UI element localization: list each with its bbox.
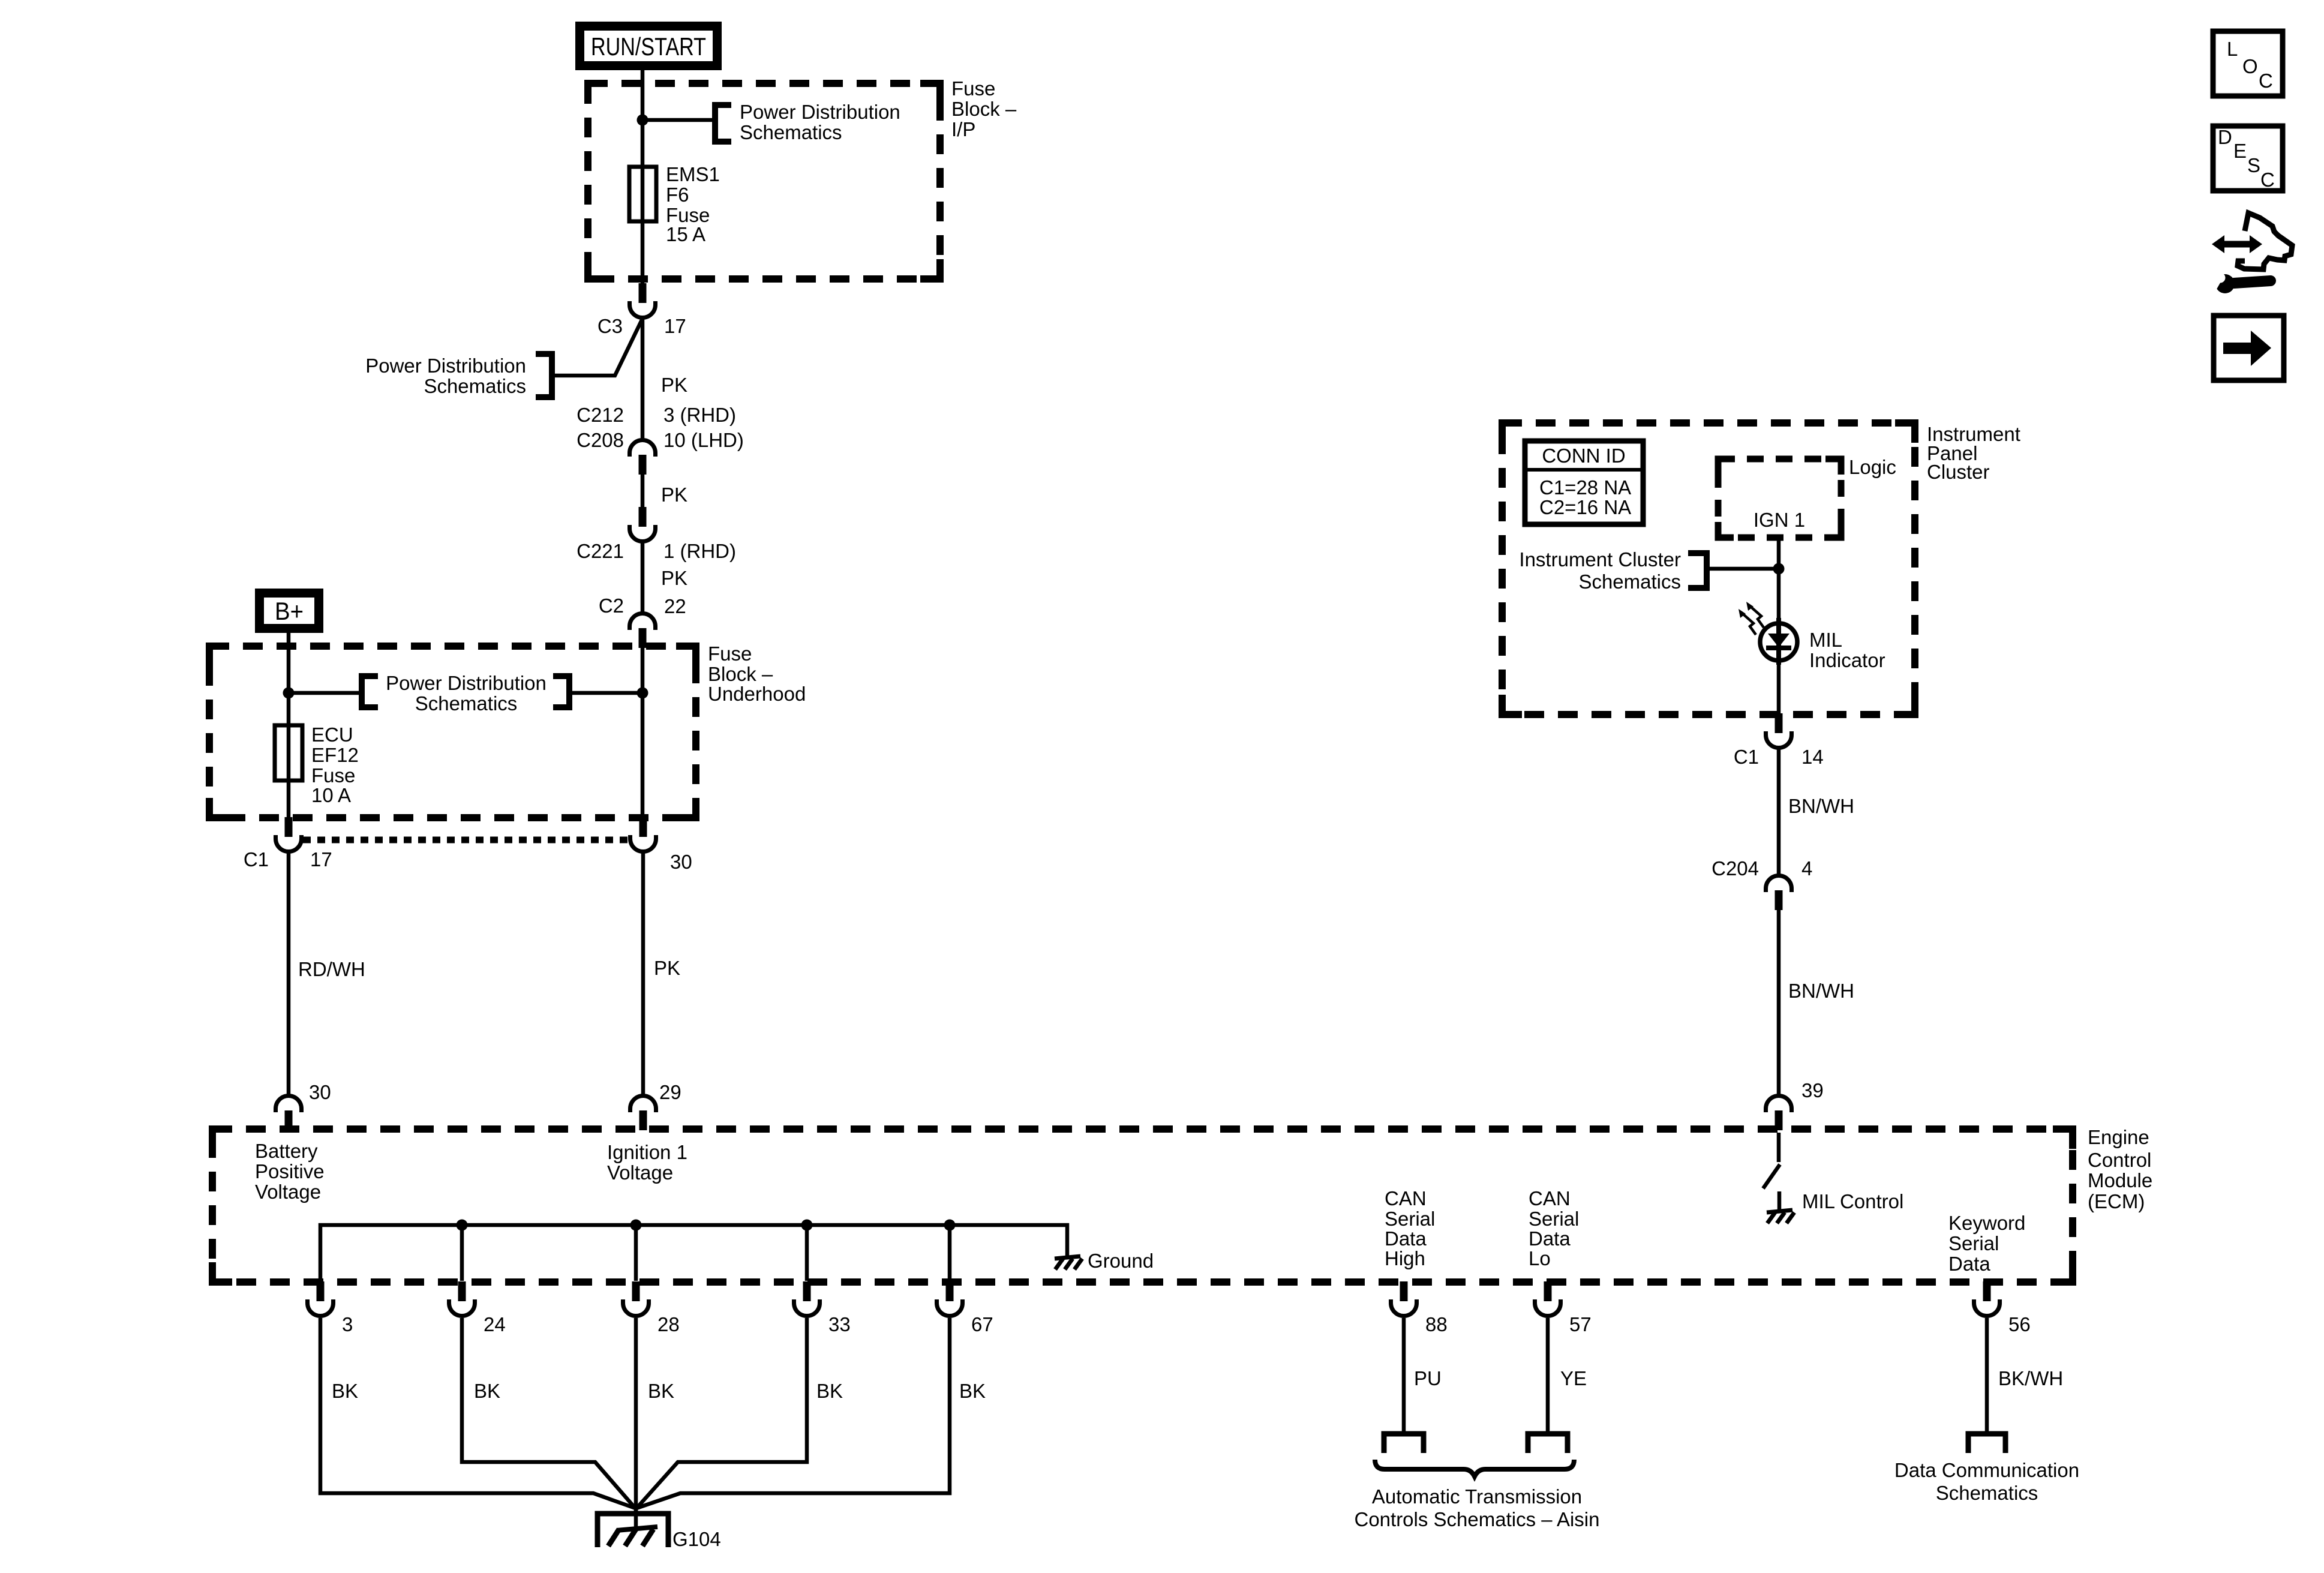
svg-text:CONN ID: CONN ID <box>1542 445 1625 467</box>
bracket Power Distribution Schematics (I/P) <box>715 105 731 142</box>
ground symbol (internal) <box>1055 1256 1082 1269</box>
svg-text:Instrument Cluster: Instrument Cluster <box>1519 548 1681 571</box>
svg-text:29: 29 <box>659 1081 681 1103</box>
connector C204 pin 4 <box>1766 876 1792 911</box>
fuse ECU EF12 10A <box>275 725 302 781</box>
svg-text:PU: PU <box>1414 1367 1442 1389</box>
table CONN ID <box>1525 441 1643 524</box>
svg-text:L: L <box>2227 38 2238 60</box>
svg-text:C1: C1 <box>1734 746 1759 768</box>
wire C2 to underhood bottom <box>641 648 645 818</box>
svg-text:Indicator: Indicator <box>1809 649 1885 671</box>
wire C212 to C221 <box>641 468 645 510</box>
svg-text:C212: C212 <box>577 404 624 426</box>
svg-text:Schematics: Schematics <box>1578 571 1681 593</box>
svg-text:57: 57 <box>1569 1313 1592 1335</box>
label Power Distribution Schematics (I/P) <box>740 101 900 143</box>
svg-text:YE: YE <box>1560 1367 1587 1389</box>
fuse EMS1 F6 15A <box>629 167 656 221</box>
label Data Communication Schematics <box>1894 1459 2079 1504</box>
terminal pin 88 <box>1384 1434 1424 1453</box>
svg-text:15 A: 15 A <box>666 223 705 245</box>
node junction on IGN1 wire <box>1773 563 1785 575</box>
wire BN/WH upper <box>1777 749 1781 874</box>
wire IGN1 to LED <box>1777 538 1781 624</box>
svg-text:1 (RHD): 1 (RHD) <box>663 540 736 562</box>
power feed box RUN/START <box>575 22 722 70</box>
wire YE <box>1546 1318 1550 1433</box>
label Instrument Panel Cluster <box>1927 423 2020 483</box>
wire RD/WH <box>287 852 291 1094</box>
connector pin 88 <box>1391 1281 1417 1316</box>
svg-text:Serial: Serial <box>1529 1208 1579 1230</box>
svg-text:Data: Data <box>1385 1227 1427 1250</box>
wire ground bus <box>320 1225 1067 1281</box>
svg-text:Underhood: Underhood <box>708 683 806 705</box>
svg-text:22: 22 <box>664 595 686 617</box>
svg-text:28: 28 <box>657 1313 680 1335</box>
svg-text:Controls Schematics – Aisin: Controls Schematics – Aisin <box>1354 1508 1599 1530</box>
svg-text:BK: BK <box>332 1380 358 1402</box>
svg-text:PK: PK <box>661 484 687 506</box>
svg-text:3: 3 <box>342 1313 353 1335</box>
wire B+ to fuse ECU <box>287 631 291 725</box>
node dot pin 24 <box>457 1220 468 1231</box>
connector C3 pin 17 <box>630 283 656 318</box>
svg-text:56: 56 <box>2008 1313 2031 1335</box>
label Battery Positive Voltage <box>255 1140 325 1203</box>
wire PK long <box>641 852 645 1094</box>
power feed box B+ <box>255 589 323 633</box>
wire junction to left bracket <box>289 691 362 695</box>
fuse block I/P dashed box <box>588 83 940 279</box>
svg-text:C1=28 NA: C1=28 NA <box>1539 476 1631 499</box>
svg-text:17: 17 <box>310 848 332 870</box>
svg-text:88: 88 <box>1425 1313 1448 1335</box>
ground G104 symbol <box>597 1506 668 1547</box>
wire junction to bracket <box>642 118 713 122</box>
svg-text:BK: BK <box>816 1380 843 1402</box>
svg-text:O: O <box>2242 55 2258 77</box>
label Ignition 1 Voltage <box>607 1141 687 1184</box>
svg-text:Data: Data <box>1529 1227 1571 1250</box>
wire pin 28 branch <box>634 1225 638 1281</box>
wire fuse to connector C3 <box>641 221 645 290</box>
svg-text:MIL: MIL <box>1809 629 1842 651</box>
wire BK pin 28 to G104 <box>634 1318 638 1513</box>
wire switch to ground stub <box>1777 1191 1782 1211</box>
svg-text:Lo: Lo <box>1529 1247 1551 1269</box>
svg-text:Block –: Block – <box>951 98 1017 120</box>
connector pin 56 <box>1974 1281 2000 1316</box>
svg-text:EF12: EF12 <box>311 744 359 766</box>
svg-text:67: 67 <box>971 1313 993 1335</box>
svg-text:RD/WH: RD/WH <box>298 958 365 980</box>
wire LED to cluster bottom <box>1777 661 1781 715</box>
svg-text:Schematics: Schematics <box>1936 1482 2038 1504</box>
svg-text:Fuse: Fuse <box>311 764 355 786</box>
svg-text:Positive: Positive <box>255 1160 325 1182</box>
terminal pin 56 <box>1968 1434 2005 1453</box>
node junction on B+ wire <box>283 688 295 699</box>
svg-text:PK: PK <box>654 957 680 979</box>
node dot pin 67 <box>944 1220 956 1231</box>
svg-text:BK: BK <box>648 1380 674 1402</box>
svg-text:RUN/START: RUN/START <box>591 32 706 61</box>
wire fuse ECU to underhood bottom <box>287 781 291 818</box>
label CAN Serial Data High <box>1385 1187 1435 1269</box>
connector pin 39 (ECM top) <box>1766 1096 1792 1131</box>
wire right bracket to PK wire <box>569 691 642 695</box>
svg-text:24: 24 <box>484 1313 506 1335</box>
svg-text:Fuse: Fuse <box>708 643 752 665</box>
svg-text:D: D <box>2218 126 2232 148</box>
LED MIL indicator <box>1739 602 1797 665</box>
svg-text:Voltage: Voltage <box>255 1181 321 1203</box>
logic dashed box <box>1718 459 1841 538</box>
svg-text:PK: PK <box>661 567 687 589</box>
connector C221 pin 1 <box>630 507 656 542</box>
connector pin 57 <box>1535 1281 1561 1316</box>
wire BK pin 24 to G104 <box>462 1318 635 1508</box>
svg-text:(ECM): (ECM) <box>2088 1190 2145 1212</box>
svg-text:BN/WH: BN/WH <box>1788 980 1854 1002</box>
brace automatic transmission <box>1375 1460 1574 1476</box>
connector pin 3 <box>308 1281 334 1316</box>
node junction in I/P block <box>637 115 648 126</box>
svg-text:Schematics: Schematics <box>424 375 526 397</box>
svg-text:30: 30 <box>309 1081 331 1103</box>
connector pin 29 (ECM top) <box>630 1096 656 1131</box>
connector C212/C208 <box>630 440 656 475</box>
svg-text:BN/WH: BN/WH <box>1788 795 1854 817</box>
svg-text:Serial: Serial <box>1948 1232 1999 1254</box>
svg-text:C: C <box>2260 169 2275 191</box>
svg-text:C: C <box>2259 70 2273 92</box>
label Engine Control Module (ECM) <box>2088 1126 2152 1212</box>
svg-text:C3: C3 <box>597 315 623 337</box>
connector pin 67 <box>937 1281 963 1316</box>
svg-text:39: 39 <box>1801 1079 1824 1101</box>
svg-text:Automatic Transmission: Automatic Transmission <box>1372 1485 1582 1508</box>
svg-text:MIL Control: MIL Control <box>1802 1190 1903 1212</box>
svg-text:BK: BK <box>474 1380 500 1402</box>
connector C1 pin 17 (underhood) <box>276 817 302 852</box>
svg-text:Data Communication: Data Communication <box>1894 1459 2079 1481</box>
wire RUN/START to fuse EMS1 <box>641 68 645 167</box>
svg-text:PK: PK <box>661 374 687 396</box>
wire bracket to wire below C3 <box>555 320 642 376</box>
svg-text:Voltage: Voltage <box>607 1161 673 1184</box>
connector pin 30 (ECM top) <box>276 1096 302 1131</box>
icon LOC box <box>2213 31 2283 96</box>
wire bracket to junction <box>1707 567 1779 571</box>
wire dashed connector line C1 <box>303 837 629 843</box>
svg-text:Fuse: Fuse <box>951 77 995 100</box>
label Power Distribution Schematics (left) <box>365 355 526 397</box>
ground symbol (MIL control) <box>1767 1210 1794 1223</box>
svg-text:33: 33 <box>828 1313 851 1335</box>
svg-text:C221: C221 <box>577 540 624 562</box>
svg-text:F6: F6 <box>666 184 689 206</box>
svg-text:EMS1: EMS1 <box>666 163 720 185</box>
svg-text:Serial: Serial <box>1385 1208 1435 1230</box>
svg-text:Power Distribution: Power Distribution <box>740 101 900 123</box>
engine control module dashed box <box>212 1129 2073 1282</box>
svg-text:B+: B+ <box>275 597 304 625</box>
svg-text:Engine: Engine <box>2088 1126 2149 1148</box>
label Keyword Serial Data <box>1948 1212 2025 1275</box>
svg-text:10 A: 10 A <box>311 784 351 806</box>
svg-text:Schematics: Schematics <box>415 692 518 715</box>
connector C2 pin 22 <box>630 614 656 649</box>
label Fuse Block - Underhood <box>708 643 806 705</box>
svg-text:Ignition 1: Ignition 1 <box>607 1141 687 1163</box>
connector pin 33 <box>794 1281 820 1316</box>
wire PU <box>1402 1318 1406 1433</box>
svg-text:C204: C204 <box>1712 857 1759 879</box>
wire pin 67 branch <box>948 1225 952 1281</box>
bracket Power Distribution Schematics (left) <box>536 354 552 397</box>
svg-text:Cluster: Cluster <box>1927 461 1990 483</box>
svg-text:I/P: I/P <box>951 118 975 140</box>
svg-text:Ground: Ground <box>1088 1250 1154 1272</box>
svg-text:14: 14 <box>1801 746 1824 768</box>
svg-text:Keyword: Keyword <box>1948 1212 2025 1234</box>
label CAN Serial Data Lo <box>1529 1187 1579 1269</box>
svg-text:4: 4 <box>1801 857 1812 879</box>
connector pin 24 <box>449 1281 475 1316</box>
label Fuse Block - I/P <box>951 77 1017 140</box>
svg-text:CAN: CAN <box>1385 1187 1427 1209</box>
switch MIL control <box>1763 1133 1780 1188</box>
wire BK pin 3 to G104 <box>320 1318 635 1508</box>
icon part-locator (part outline, double arrow, wrench) <box>2207 213 2292 293</box>
svg-text:C208: C208 <box>577 429 624 451</box>
svg-text:30: 30 <box>670 851 692 873</box>
svg-text:Power Distribution: Power Distribution <box>386 672 547 694</box>
svg-text:Power Distribution: Power Distribution <box>365 355 526 377</box>
label Instrument Cluster Schematics <box>1519 548 1681 593</box>
bracket left Power Distribution Schematics (underhood) <box>362 676 378 707</box>
svg-text:Schematics: Schematics <box>740 121 842 143</box>
terminal pin 57 <box>1528 1434 1568 1453</box>
svg-text:C1: C1 <box>244 848 269 870</box>
wire BK pin 67 to G104 <box>636 1318 950 1508</box>
svg-text:C2=16 NA: C2=16 NA <box>1539 496 1631 518</box>
svg-text:Logic: Logic <box>1849 456 1896 478</box>
instrument panel cluster dashed box <box>1502 423 1915 715</box>
wire BK/WH <box>1985 1318 1989 1433</box>
wire BN/WH lower <box>1777 906 1781 1094</box>
connector C1 pin 14 <box>1766 713 1792 748</box>
svg-text:E: E <box>2233 140 2247 162</box>
fuse block underhood dashed box <box>209 646 696 818</box>
svg-text:CAN: CAN <box>1529 1187 1571 1209</box>
svg-text:High: High <box>1385 1247 1425 1269</box>
label MIL Indicator <box>1809 629 1885 671</box>
svg-text:Battery: Battery <box>255 1140 318 1162</box>
bracket Instrument Cluster Schematics <box>1688 553 1707 588</box>
label Automatic Transmission Controls Schematics - Aisin <box>1354 1485 1599 1530</box>
svg-text:ECU: ECU <box>311 724 353 746</box>
svg-text:17: 17 <box>664 315 686 337</box>
wire C221 to C2 <box>641 542 645 612</box>
svg-text:10 (LHD): 10 (LHD) <box>663 429 744 451</box>
svg-text:G104: G104 <box>672 1528 721 1550</box>
svg-text:BK: BK <box>959 1380 986 1402</box>
svg-text:Block –: Block – <box>708 663 773 685</box>
connector pin 28 <box>623 1281 649 1316</box>
svg-text:BK/WH: BK/WH <box>1998 1367 2063 1389</box>
label ECU EF12 Fuse 10 A <box>311 724 359 806</box>
wire pin 24 branch <box>460 1225 464 1281</box>
label EMS1 F6 Fuse 15 A <box>666 163 720 245</box>
icon DESC box <box>2213 126 2283 191</box>
wire BK pin 33 to G104 <box>636 1318 807 1508</box>
bracket right Power Distribution Schematics (underhood) <box>553 676 569 707</box>
wire C3 to C212 <box>641 319 645 439</box>
svg-text:3 (RHD): 3 (RHD) <box>663 404 736 426</box>
svg-text:Module: Module <box>2088 1169 2152 1191</box>
svg-text:Data: Data <box>1948 1253 1990 1275</box>
node junction on PK wire <box>637 688 648 699</box>
node dot pin 28 <box>630 1220 642 1231</box>
svg-text:Control: Control <box>2088 1149 2151 1171</box>
svg-text:C2: C2 <box>599 595 624 617</box>
icon arrow box <box>2214 316 2284 380</box>
svg-text:IGN 1: IGN 1 <box>1753 509 1805 531</box>
label Power Distribution Schematics (underhood) <box>386 672 547 715</box>
node dot pin 33 <box>801 1220 813 1231</box>
connector pin 30 (underhood) <box>630 817 656 852</box>
svg-text:S: S <box>2247 154 2260 176</box>
wire pin 33 branch <box>805 1225 809 1281</box>
